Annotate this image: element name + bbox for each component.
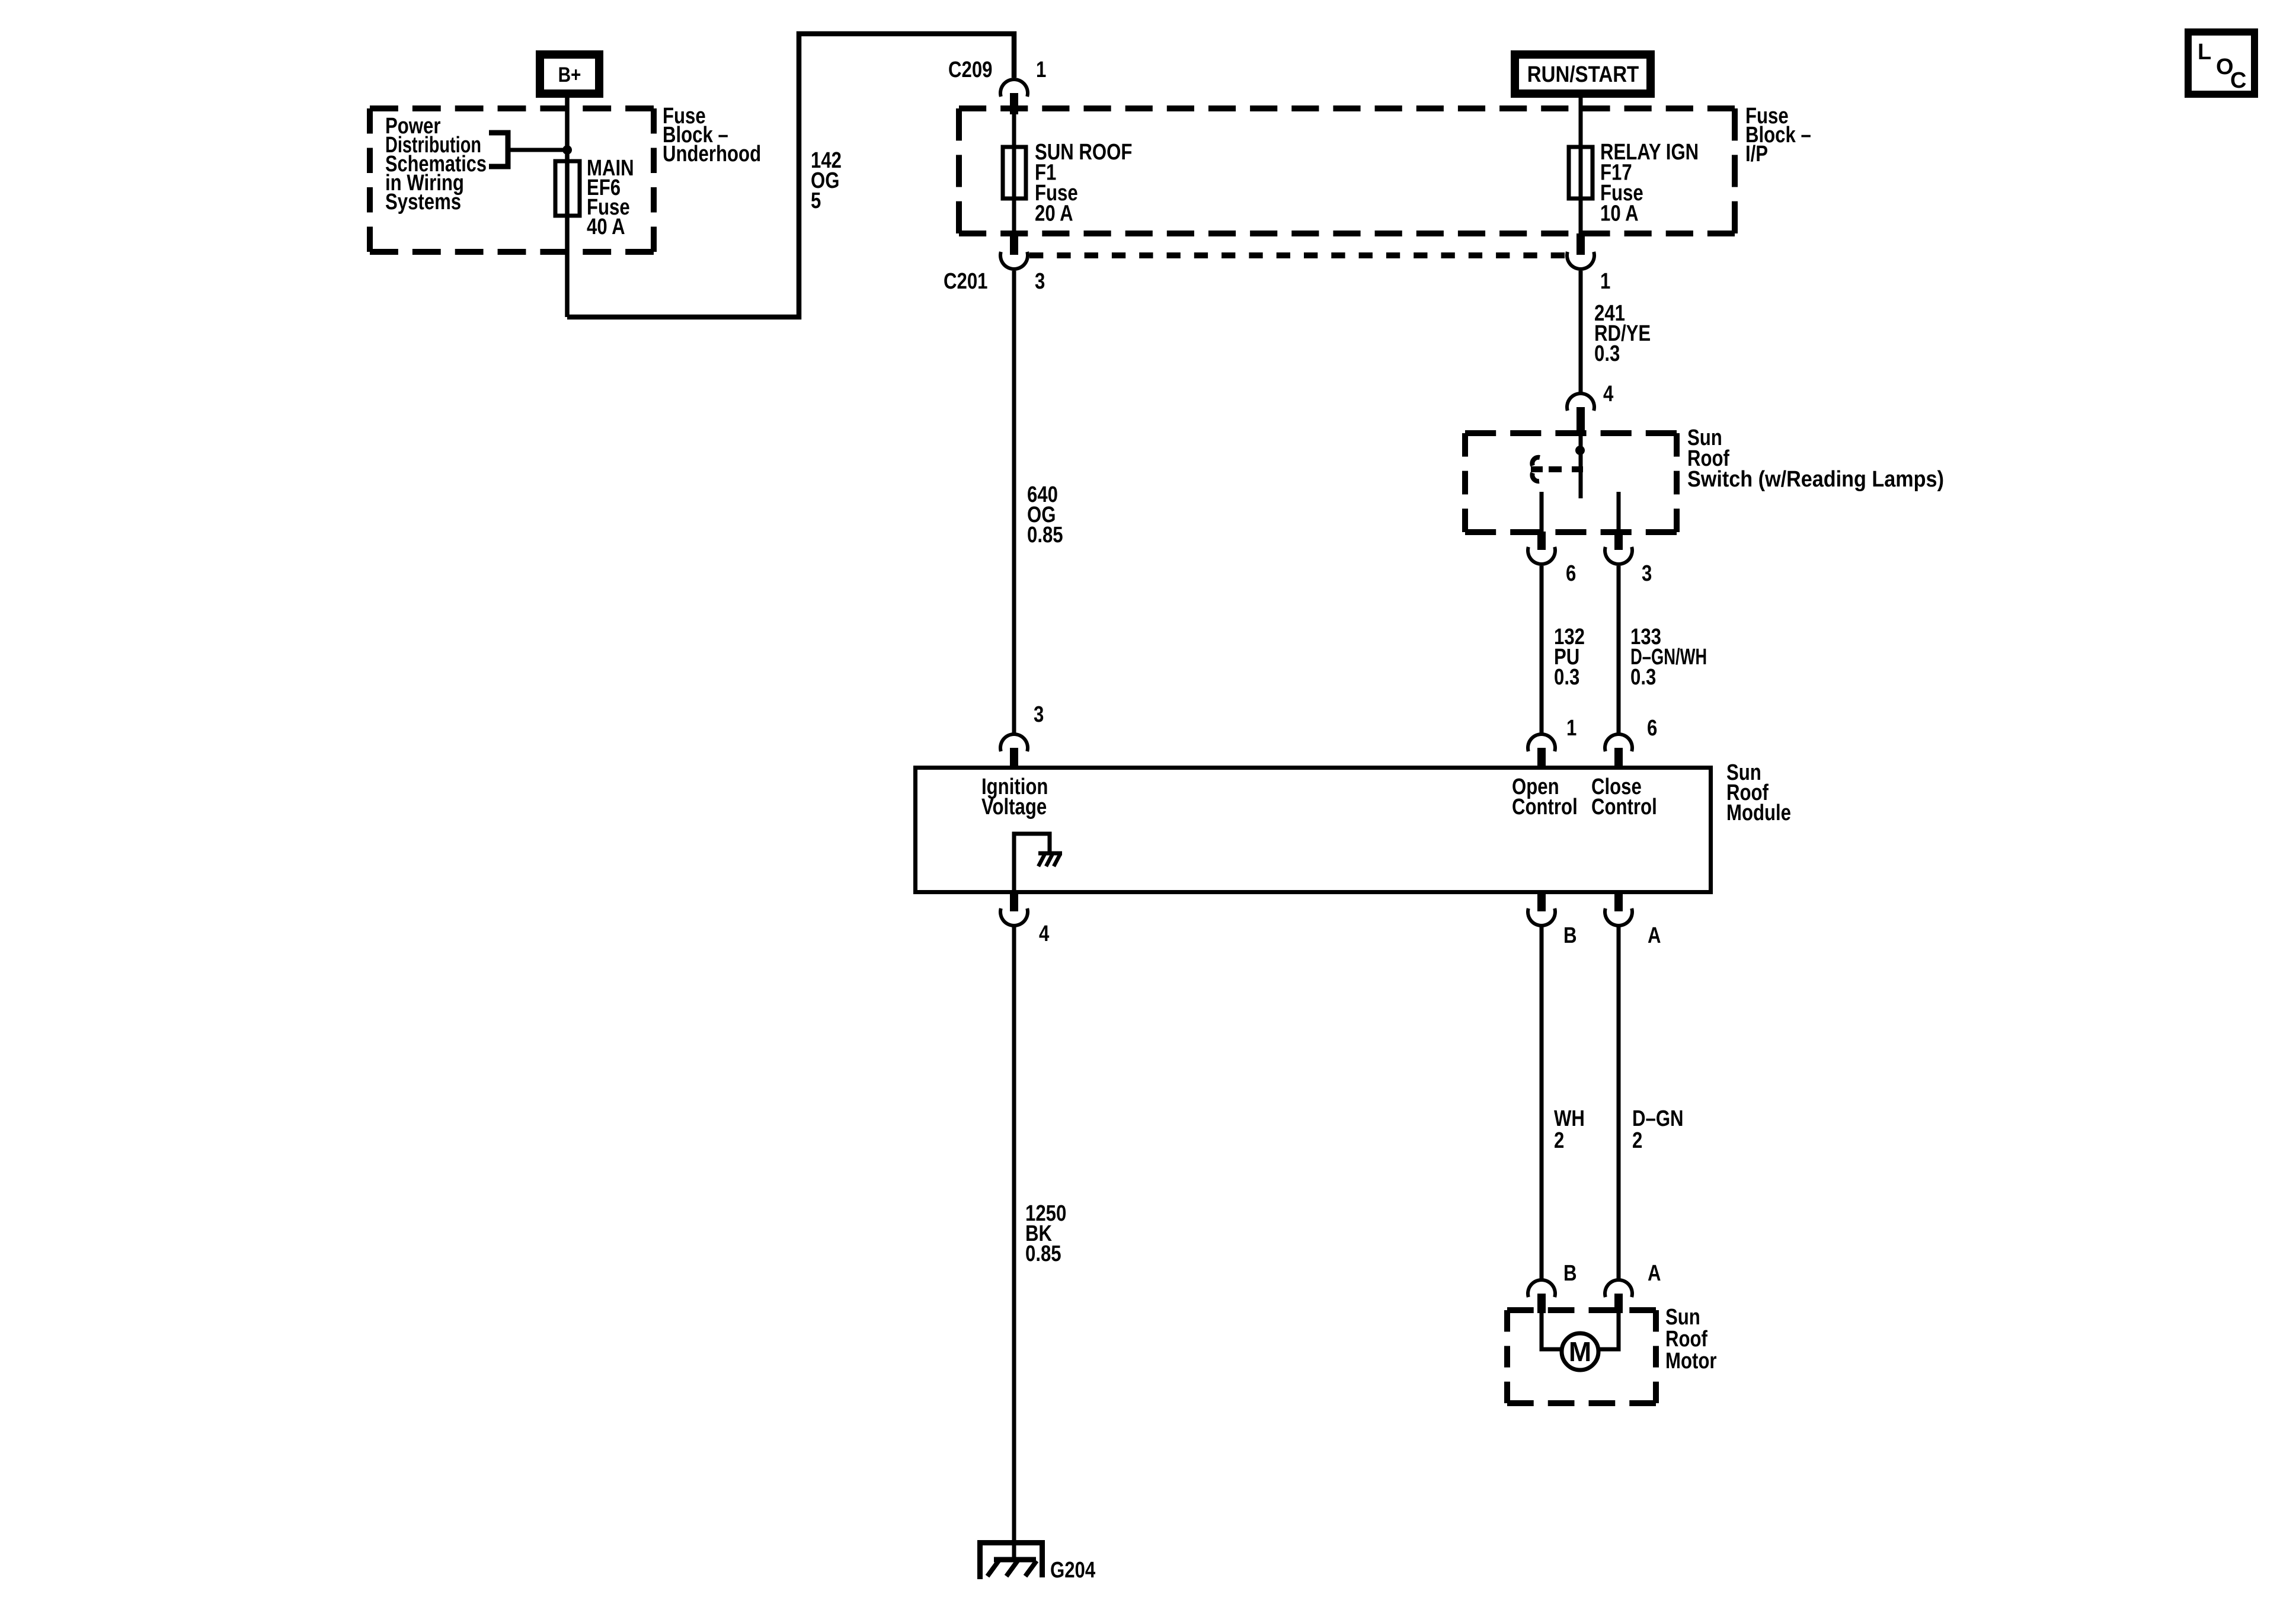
svg-text:Systems: Systems [385, 190, 461, 215]
connector arc module pin 1 [1528, 734, 1555, 751]
connector stub pin 3 of switch [1614, 532, 1623, 550]
svg-text:0.85: 0.85 [1027, 523, 1063, 548]
connector stub pin 6 of switch [1537, 532, 1546, 550]
connector arc module pin B [1528, 908, 1555, 926]
connector stub module pin 3 [1010, 748, 1018, 768]
connector stub motor pin B [1537, 1294, 1546, 1313]
connector arc module pin A [1605, 908, 1632, 926]
wire RUN/START down through RELAY IGN fuse [1579, 97, 1583, 233]
svg-text:G204: G204 [1050, 1558, 1096, 1583]
bracket from power-distribution note [489, 133, 508, 167]
switch close contact leg [1617, 492, 1621, 532]
module internal ground wire [1014, 834, 1050, 892]
sun roof motor dashed outline [1507, 1307, 1656, 1313]
wire WH 2 open [1540, 926, 1544, 1279]
svg-text:Sun: Sun [1665, 1305, 1700, 1330]
connector stub pin 4 sun roof switch [1576, 407, 1585, 434]
svg-text:Switch (w/Reading Lamps): Switch (w/Reading Lamps) [1687, 466, 1944, 491]
svg-text:A: A [1648, 923, 1661, 948]
connector stub module pin 1 [1537, 748, 1546, 768]
svg-text:4: 4 [1603, 382, 1614, 406]
svg-text:RUN/START: RUN/START [1527, 62, 1639, 87]
svg-text:40 A: 40 A [587, 215, 625, 239]
ground G204 hatch [994, 1557, 1036, 1563]
switch open contact leg [1540, 492, 1544, 532]
svg-text:3: 3 [1642, 561, 1652, 586]
connector arc motor pin A [1605, 1280, 1632, 1297]
connector C209 arc [1000, 79, 1028, 97]
switch linkage dashes [1549, 466, 1562, 472]
wire through SUN ROOF fuse F1 [1012, 114, 1016, 233]
svg-text:1: 1 [1566, 716, 1576, 741]
svg-text:Module: Module [1726, 801, 1791, 825]
svg-text:Motor: Motor [1665, 1349, 1716, 1374]
junction dot on B+ feed [562, 145, 572, 155]
svg-text:2: 2 [1554, 1128, 1564, 1153]
svg-text:0.3: 0.3 [1594, 341, 1620, 366]
wire D-GN 2 close [1617, 926, 1621, 1279]
connector stub module pin A [1614, 894, 1623, 911]
wire 640 OG 0.85 from C201 to sun roof module [1012, 271, 1016, 734]
svg-text:I/P: I/P [1745, 142, 1768, 167]
wire 133 D-GN/WH 0.3 close control [1617, 566, 1621, 734]
connector stub motor pin A [1614, 1294, 1623, 1313]
connector arc module pin 4 [1000, 908, 1028, 926]
svg-text:1: 1 [1036, 57, 1046, 82]
svg-text:0.85: 0.85 [1025, 1241, 1061, 1266]
svg-text:20 A: 20 A [1035, 201, 1073, 226]
svg-text:L: L [2198, 40, 2211, 65]
connector C201 arc pin 3 [1000, 252, 1028, 269]
connector stub module pin 6 [1614, 748, 1623, 768]
connector arc motor pin B [1528, 1280, 1555, 1297]
connector C201 stub pin 1 side [1576, 233, 1585, 255]
svg-text:C: C [2230, 68, 2246, 93]
svg-text:WH: WH [1554, 1106, 1585, 1131]
sun roof module box [916, 768, 1711, 892]
connector arc module pin 6 [1605, 734, 1632, 751]
svg-text:D–GN: D–GN [1632, 1106, 1684, 1131]
switch wiper contact [1532, 457, 1540, 481]
connector C201 stub pin 3 side [1010, 233, 1018, 255]
connector arc pin 4 sun roof switch [1567, 393, 1594, 411]
svg-text:B: B [1563, 1261, 1577, 1286]
svg-text:B: B [1563, 923, 1577, 948]
svg-text:2: 2 [1632, 1128, 1642, 1153]
wire B+ down through MAIN EF6 fuse [565, 97, 570, 317]
wire 142 OG 5 from fuse block underhood to C209 [567, 34, 1014, 317]
svg-text:6: 6 [1566, 561, 1576, 586]
svg-text:1: 1 [1600, 269, 1610, 294]
sun roof switch dashed outline [1465, 430, 1677, 436]
svg-text:10 A: 10 A [1600, 201, 1639, 226]
fuse SUN ROOF F1 20A body [1003, 147, 1026, 199]
svg-text:Roof: Roof [1665, 1327, 1707, 1352]
connector C201 dotted boundary line [1029, 252, 1565, 258]
motor M circle [1562, 1333, 1598, 1370]
wire 1250 BK 0.85 to ground [1012, 926, 1016, 1560]
fuse block I/P dashed outline [959, 105, 1735, 111]
wire from note bracket to B+ feed [508, 148, 564, 152]
module internal ground symbol [1038, 852, 1062, 856]
svg-text:0.3: 0.3 [1630, 665, 1656, 690]
ground G204 bracket [980, 1543, 1043, 1580]
svg-text:Underhood: Underhood [663, 142, 761, 167]
motor wire B side [1542, 1311, 1562, 1349]
svg-text:3: 3 [1034, 702, 1044, 727]
connector arc module pin 3 [1000, 734, 1028, 751]
svg-text:3: 3 [1035, 269, 1045, 294]
fuse RELAY IGN F17 10A body [1569, 147, 1593, 199]
LOC legend box [2188, 32, 2255, 94]
connector arc pin 3 of switch [1605, 547, 1632, 564]
motor wire A side [1598, 1311, 1619, 1349]
svg-text:C209: C209 [948, 57, 992, 82]
junction dot in switch [1575, 446, 1585, 455]
svg-text:5: 5 [811, 188, 821, 213]
fuse block underhood dashed outline [370, 105, 654, 111]
battery positive terminal B+ box [540, 55, 599, 94]
svg-text:M: M [1569, 1336, 1591, 1367]
svg-text:6: 6 [1647, 716, 1657, 741]
svg-text:C201: C201 [944, 269, 987, 294]
svg-text:Control: Control [1512, 795, 1578, 820]
ignition RUN/START feed box [1515, 55, 1651, 94]
connector C201 arc pin 1 [1567, 252, 1594, 269]
connector stub module pin 4 [1010, 894, 1018, 911]
switch common rod [1579, 433, 1583, 498]
connector C209 stub [1010, 93, 1018, 114]
connector stub module pin B [1537, 894, 1546, 911]
svg-text:0.3: 0.3 [1554, 665, 1579, 690]
svg-text:Voltage: Voltage [981, 795, 1047, 820]
svg-text:4: 4 [1039, 921, 1050, 946]
wire 132 PU 0.3 open control [1540, 566, 1544, 734]
svg-text:A: A [1648, 1261, 1661, 1286]
fuse MAIN EF6 40A body [555, 161, 580, 216]
wire 241 RD/YE 0.3 from C201 to sun roof switch [1579, 271, 1583, 393]
svg-text:Control: Control [1591, 795, 1657, 820]
svg-text:B+: B+ [558, 63, 581, 87]
connector arc pin 6 of switch [1528, 547, 1555, 564]
